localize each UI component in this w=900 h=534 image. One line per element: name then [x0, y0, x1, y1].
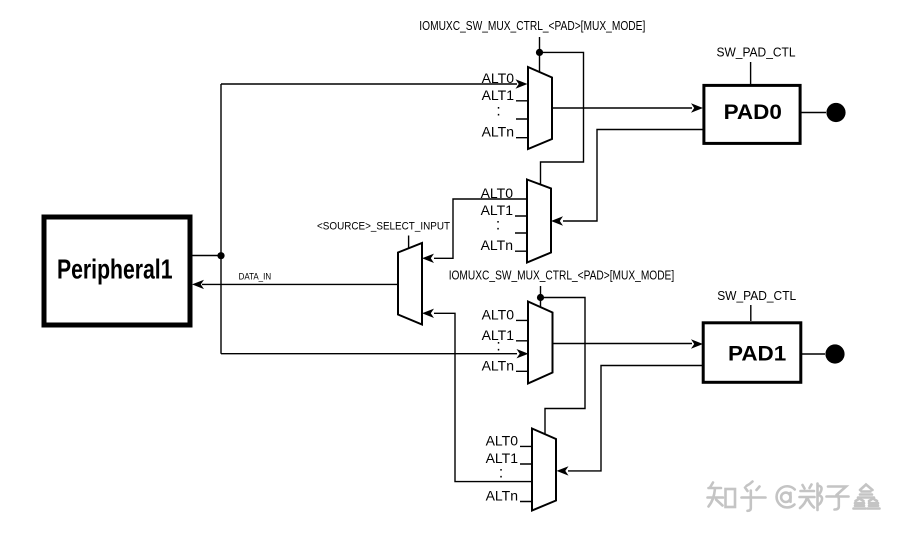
- svg-text:ALT0: ALT0: [482, 70, 515, 86]
- label DATA_IN: [239, 272, 272, 283]
- label IOMUXC_SW_MUX_CTRL 1: [419, 19, 645, 33]
- wire select line into mux U1: [539, 37, 541, 72]
- mux U4 input path mux PAD1: [486, 429, 556, 511]
- svg-text:ALTn: ALTn: [481, 237, 513, 253]
- node junction dot select 2: [537, 294, 544, 301]
- peripheral box Peripheral1: [44, 217, 190, 325]
- wire select branch to mux U2: [540, 52, 584, 185]
- node junction dot on peripheral output: [217, 252, 224, 259]
- svg-text:ALTn: ALTn: [482, 124, 514, 140]
- wire mux U4 output to select mux: [422, 309, 532, 482]
- svg-text::: :: [496, 102, 500, 119]
- svg-text:Peripheral1: Peripheral1: [57, 253, 173, 284]
- pad ball PAD0: [826, 103, 845, 122]
- svg-text:SW_PAD_CTL: SW_PAD_CTL: [717, 46, 796, 60]
- mux U1 output path mux PAD0: [482, 67, 552, 149]
- svg-text:DATA_IN: DATA_IN: [239, 272, 272, 283]
- svg-text:PAD1: PAD1: [728, 343, 787, 366]
- wire PAD0 to ball: [801, 112, 826, 114]
- label SW_PAD_CTL 2: [717, 289, 796, 303]
- wire PAD1 feedback into mux U4: [557, 366, 703, 476]
- svg-text::: :: [496, 217, 500, 234]
- wire mux U3 output to PAD1: [553, 339, 704, 348]
- label SW_PAD_CTL 1: [717, 46, 796, 60]
- pad box PAD1: [703, 323, 801, 383]
- mux U3 output path mux PAD1: [482, 302, 553, 384]
- label IOMUXC_SW_MUX_CTRL 2: [449, 269, 675, 283]
- wire select branch to mux U4: [541, 298, 586, 437]
- svg-text:ALT1: ALT1: [482, 87, 515, 103]
- svg-text:ALT0: ALT0: [486, 433, 519, 449]
- wire select tick into mux U5: [408, 236, 410, 249]
- wire PAD0 feedback into mux U2: [551, 130, 703, 226]
- svg-text::: :: [496, 338, 500, 355]
- svg-text:ALTn: ALTn: [482, 358, 514, 374]
- wire PAD1 to ball: [802, 353, 825, 355]
- wire mux U1 output to PAD0: [552, 103, 703, 112]
- svg-text:ALT0: ALT0: [482, 307, 515, 323]
- svg-text:<SOURCE>_SELECT_INPUT: <SOURCE>_SELECT_INPUT: [317, 221, 450, 233]
- wire vertical bus at x=221: [220, 84, 222, 354]
- wire SW_PAD_CTL tick to PAD1: [750, 305, 752, 321]
- wire mux U2 ALT0 output to select mux: [422, 199, 527, 263]
- mux U5 source select mux: [398, 243, 422, 325]
- mux U2 input path mux PAD0: [481, 180, 551, 263]
- label SOURCE_SELECT_INPUT: [317, 221, 450, 233]
- svg-text:SW_PAD_CTL: SW_PAD_CTL: [717, 289, 796, 303]
- pad ball PAD1: [825, 344, 844, 363]
- watermark zhihu: [708, 482, 880, 511]
- wire ALT0 input to mux U1: [221, 79, 528, 88]
- svg-text:IOMUXC_SW_MUX_CTRL_<PAD>[MUX_M: IOMUXC_SW_MUX_CTRL_<PAD>[MUX_MODE]: [449, 269, 675, 283]
- svg-text::: :: [499, 465, 503, 482]
- wire select line into mux U3: [540, 286, 542, 307]
- svg-text:IOMUXC_SW_MUX_CTRL_<PAD>[MUX_M: IOMUXC_SW_MUX_CTRL_<PAD>[MUX_MODE]: [419, 19, 645, 33]
- svg-text:PAD0: PAD0: [724, 101, 782, 124]
- wire peripheral output to junction: [192, 255, 221, 257]
- wire SW_PAD_CTL tick to PAD0: [750, 62, 752, 84]
- svg-text:ALTn: ALTn: [486, 488, 518, 504]
- pad box PAD0: [704, 85, 800, 143]
- node junction dot select 1: [536, 49, 543, 56]
- wire DATA_IN from mux U5 to peripheral: [192, 280, 398, 289]
- wire ALT input to mux U3: [221, 349, 529, 358]
